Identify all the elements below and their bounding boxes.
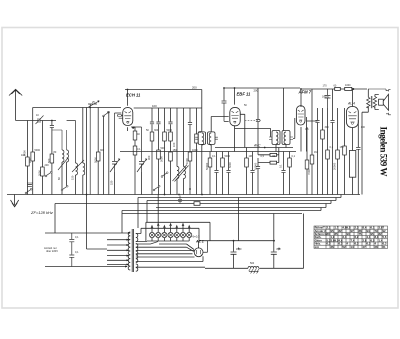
wire: [26, 166, 28, 195]
inductor L2 antenna coil: [67, 150, 69, 162]
svg-text:6,2: 6,2: [355, 235, 359, 239]
resistor R29: [305, 160, 309, 169]
inductor L6 osc coil: [184, 167, 186, 179]
wire input top bus: [33, 108, 121, 121]
svg-text:0,1: 0,1: [279, 164, 283, 168]
capacitor C3 padding: [28, 185, 32, 187]
svg-text:6,3: 6,3: [367, 242, 371, 246]
wire: [134, 127, 142, 195]
wire: [151, 124, 153, 132]
wire long vertical screen: [201, 90, 203, 195]
resistor R27 cathode (tall): [349, 151, 355, 178]
wire vertical x27: [26, 121, 28, 158]
wire tube V1 plate to bus: [127, 90, 129, 106]
switch S7 osc: [161, 172, 168, 178]
wire speaker feed: [362, 89, 368, 195]
resistor R25: [326, 150, 330, 159]
resistor R8: [150, 132, 154, 141]
wire vertical x32: [32, 108, 34, 153]
svg-text:5000: 5000: [94, 157, 98, 163]
resistor R4: [50, 154, 54, 163]
svg-text:500: 500: [250, 262, 255, 265]
svg-text:0,1: 0,1: [75, 251, 79, 254]
wire: [224, 103, 229, 121]
resistor R20: [288, 158, 292, 167]
bus return 3: [55, 203, 331, 205]
capacitor C10: [222, 101, 227, 103]
wire x177: [176, 108, 178, 167]
resistor R14: [195, 134, 199, 143]
wire: [222, 167, 224, 195]
mains input top: [45, 232, 130, 234]
bus return 2: [147, 200, 336, 202]
bus return mid: [120, 151, 296, 153]
wire bottom return: [205, 267, 304, 269]
svg-text:2000: 2000: [38, 170, 42, 176]
svg-text:300: 300: [154, 129, 159, 132]
wire x190: [189, 108, 191, 122]
resistor R13: [188, 152, 192, 161]
tube V2 EBF11: [230, 107, 240, 125]
svg-text:1000: 1000: [185, 158, 189, 164]
resistor R28 on bus: [194, 202, 200, 206]
wire x183: [183, 108, 185, 167]
svg-text:61: 61: [383, 245, 387, 249]
resistor R19 horizontal: [270, 153, 277, 156]
staircase joins: [321, 195, 341, 211]
ground main bus: [7, 194, 360, 196]
wire B+ feed: [87, 248, 108, 250]
svg-text:150: 150: [340, 146, 345, 149]
bus top right: [300, 88, 367, 90]
resistor R23: [310, 155, 314, 164]
svg-text:10000: 10000: [254, 162, 258, 170]
plus mark C25: [278, 247, 280, 249]
lamp LA1: [149, 232, 154, 237]
junction blob AVC: [264, 147, 266, 149]
wire x283: [283, 152, 285, 171]
wire: [82, 175, 84, 195]
wire vertical x52: [51, 121, 53, 126]
resistor R10: [163, 132, 167, 141]
svg-text:100: 100: [21, 154, 26, 157]
svg-text:100: 100: [152, 104, 157, 108]
wire: [357, 149, 359, 194]
capacitor C22 mains: [69, 233, 74, 255]
tube V1 ECH11: [123, 108, 133, 126]
svg-text:1000: 1000: [192, 149, 198, 152]
resistor R21 on bus: [335, 87, 341, 90]
bus return 4: [156, 207, 326, 209]
capacitor C17: [281, 171, 285, 173]
wire vertical x98: [97, 108, 99, 153]
svg-text:100: 100: [28, 158, 32, 163]
resistor R3: [41, 167, 45, 176]
IF transformer IFT1: [198, 132, 206, 145]
wire IFT2 to AF7 grid: [293, 118, 295, 139]
wire: [252, 173, 254, 195]
wire: [170, 124, 172, 132]
svg-text:1000: 1000: [345, 84, 351, 87]
wire vertical x75: [67, 121, 76, 164]
table cell data marks: [327, 226, 387, 249]
wire tube V1 bottom: [127, 127, 129, 131]
wire: [327, 159, 329, 195]
tuning capacitor VC3: [137, 127, 147, 172]
svg-text:36: 36: [331, 245, 335, 249]
wire: [277, 148, 279, 163]
wire x322: [322, 108, 324, 130]
capacitor C1 antenna trimmer: [37, 118, 45, 122]
wire: [97, 161, 99, 195]
wire: [189, 125, 191, 152]
wire grid cap branch: [223, 88, 225, 101]
capacitor C8 IFT1: [195, 137, 198, 139]
wire IFT1: [210, 145, 212, 152]
resistor R9: [157, 150, 161, 159]
wire x210: [209, 152, 211, 159]
resistor R11: [169, 132, 173, 141]
svg-text:47: 47: [363, 245, 367, 249]
inductor L1 antenna coil: [62, 150, 64, 162]
wire antenna to input: [16, 120, 37, 122]
capacitor C5: [156, 122, 160, 124]
transformer T2 core: [370, 96, 373, 108]
wire: [257, 169, 259, 195]
wire band drop: [157, 195, 159, 225]
svg-text:52: 52: [343, 245, 347, 249]
capacitor C6: [168, 122, 172, 124]
svg-text:0,5: 0,5: [261, 155, 265, 158]
svg-text:150: 150: [173, 149, 178, 152]
hum coil L8 on return: [248, 267, 259, 269]
svg-text:ECH 11: ECH 11: [126, 93, 141, 98]
svg-text:200: 200: [254, 89, 259, 93]
wire: [27, 182, 32, 184]
svg-text:8µF: 8µF: [277, 248, 282, 251]
svg-text:AZ 1: AZ 1: [195, 240, 204, 244]
bus grid/heater mid: [134, 107, 202, 109]
wire x337: [337, 108, 339, 150]
wire tube V2 top: [234, 88, 236, 105]
table row labels: [315, 226, 327, 249]
svg-text:0,1: 0,1: [212, 155, 216, 158]
wire lamp bottoms: [147, 238, 189, 241]
wire vertical x82: [82, 108, 84, 164]
wire x327: [327, 108, 329, 150]
svg-text:1M: 1M: [249, 155, 252, 158]
svg-text:200: 200: [192, 86, 197, 90]
bus return 5: [122, 210, 321, 212]
svg-text:AFM 7: AFM 7: [298, 90, 312, 95]
bus B+ rectified: [199, 214, 304, 269]
wire rectifier output: [203, 241, 208, 253]
capacitor C19: [315, 121, 319, 123]
tuning capacitor VC2: [110, 113, 120, 172]
wire: [158, 124, 160, 150]
capacitor C13: [214, 171, 218, 173]
resistor R16: [221, 158, 225, 167]
wire x246: [246, 148, 248, 159]
wire: [51, 163, 53, 195]
junction dots: [189, 188, 191, 190]
svg-text:Ingelen 539 W: Ingelen 539 W: [379, 127, 389, 177]
svg-text:16µF: 16µF: [236, 248, 242, 251]
wire IFT1 secondary to grid: [211, 117, 229, 132]
svg-text:1M: 1M: [314, 151, 317, 154]
wire: [183, 179, 185, 195]
wire: [289, 167, 291, 195]
inductor L3 band coil: [76, 163, 78, 175]
svg-text:85: 85: [335, 232, 339, 236]
value table: [314, 226, 388, 248]
svg-text:6,3: 6,3: [355, 242, 359, 246]
wire: [134, 155, 136, 195]
wire: [51, 128, 53, 154]
lamp LA7: [187, 232, 192, 237]
svg-text:EBF 11: EBF 11: [237, 92, 252, 97]
wire: [115, 113, 122, 195]
resistor R7: [133, 146, 137, 155]
switch S3 wave band: [61, 185, 68, 191]
chassis ground hatch: [249, 269, 260, 274]
svg-text:5000: 5000: [225, 155, 231, 158]
wire: [322, 139, 324, 195]
wire vertical x103: [103, 116, 105, 195]
capacitor C23 mains: [69, 255, 74, 267]
wire secondary to voice coil: [375, 95, 379, 110]
capacitor C15: [250, 171, 254, 173]
wire: [209, 167, 211, 195]
capacitor C24 filter: [231, 241, 237, 269]
capacitor C25 filter: [271, 214, 277, 269]
resistor R2: [31, 152, 35, 161]
loudspeaker: [379, 99, 384, 105]
svg-text:50000: 50000: [205, 162, 209, 170]
heater wires: [136, 242, 205, 268]
wire x152: [151, 108, 153, 122]
svg-text:500: 500: [161, 147, 166, 150]
svg-text:28: 28: [375, 245, 379, 249]
voltage selector taps: [107, 240, 129, 265]
power transformer T1 primary: [128, 232, 130, 270]
svg-text:75: 75: [359, 232, 363, 236]
wire x164: [164, 108, 166, 132]
wire: [332, 123, 334, 195]
wire: [246, 167, 248, 195]
wire tube V4: [353, 89, 359, 151]
lamp LA5: [174, 232, 179, 237]
wire x170: [170, 108, 172, 122]
capacitor C11 IFT2: [269, 137, 272, 140]
svg-text:300: 300: [100, 149, 105, 152]
wire tube V2 bottom: [234, 125, 236, 151]
resistor R26: [336, 150, 340, 159]
wire x317: [317, 108, 319, 120]
svg-text:6×0,3: 6×0,3: [193, 235, 201, 239]
svg-text:ZF=128 kHz: ZF=128 kHz: [30, 210, 53, 215]
wire speaker frame: [368, 89, 386, 91]
component value labels (tiny): [21, 84, 365, 265]
lamp LA4: [168, 232, 173, 237]
dashed AVC link: [245, 120, 262, 122]
wire x222: [222, 152, 224, 159]
resistor R5: [96, 152, 100, 161]
svg-text:über 220V: über 220V: [46, 249, 58, 253]
capacitor C16: [256, 167, 260, 169]
bus B+ top ECH: [125, 89, 202, 91]
capacitor C26: [256, 120, 260, 122]
wire: [75, 175, 77, 195]
svg-text:300: 300: [325, 126, 330, 129]
mains input bottom: [45, 266, 127, 268]
svg-text:150: 150: [71, 175, 75, 180]
wire x252: [252, 152, 254, 171]
resistor R24: [321, 130, 325, 139]
resistor R17: [245, 158, 249, 167]
junction blob bus: [352, 88, 354, 90]
wire x158: [158, 108, 160, 122]
wire: [41, 176, 43, 195]
wire: [189, 161, 191, 195]
svg-text:14: 14: [351, 245, 355, 249]
svg-text:5000: 5000: [167, 129, 173, 132]
resistor R1: [26, 157, 30, 166]
lamp LA2: [156, 232, 161, 237]
wire: [196, 143, 198, 195]
wire: [283, 173, 285, 195]
wire x289: [289, 152, 291, 159]
wire grid coupling x258: [257, 88, 259, 119]
wire HT secondary to rectifier: [136, 228, 199, 240]
switch S1 wave band: [25, 188, 32, 194]
wire: [62, 162, 67, 195]
svg-text:300: 300: [147, 155, 151, 160]
svg-text:100: 100: [172, 142, 176, 147]
svg-text:2,4: 2,4: [343, 235, 347, 239]
power transformer T1 secondary: [136, 234, 138, 242]
wire x307: [306, 127, 308, 160]
lamp LA6: [180, 232, 185, 237]
wire: [257, 122, 259, 148]
wire x332: [332, 89, 334, 120]
wire: [131, 127, 135, 146]
wire left drops: [55, 108, 147, 250]
wire x216: [216, 152, 218, 171]
bus B+ EBF: [224, 87, 300, 89]
wire lamp shelf: [146, 222, 210, 241]
svg-text:5000: 5000: [160, 156, 164, 162]
trimmer arrow L1: [58, 158, 68, 170]
svg-text:170: 170: [323, 84, 328, 87]
wire: [306, 169, 308, 195]
wire B+ riser: [238, 198, 240, 241]
bus return 6: [122, 213, 302, 215]
capacitor C7: [188, 123, 192, 125]
IF transformer IFT2: [272, 131, 280, 145]
svg-text:5000: 5000: [228, 162, 232, 168]
capacitor C4: [150, 122, 154, 124]
wire x196: [196, 108, 198, 134]
svg-text:mA: mA: [315, 245, 319, 249]
wire: [170, 141, 172, 152]
bus AVC: [215, 147, 293, 149]
svg-text:0,1: 0,1: [292, 155, 296, 158]
wire: [216, 173, 218, 195]
svg-text:97: 97: [351, 229, 355, 233]
svg-text:100: 100: [361, 126, 366, 129]
svg-text:200: 200: [45, 164, 50, 167]
svg-text:7000: 7000: [307, 169, 311, 175]
inductor L5 osc coil: [177, 167, 179, 179]
svg-text:520: 520: [110, 180, 114, 185]
svg-text:5000: 5000: [35, 149, 41, 152]
trimmer arrow L3: [72, 160, 84, 172]
svg-text:0,5: 0,5: [305, 128, 309, 131]
wire: [311, 164, 313, 195]
capacitor C14: [226, 171, 230, 173]
ground arrow: [11, 195, 19, 207]
output transformer T2 secondary zigzag: [373, 97, 376, 108]
switch S6 mains: [151, 242, 159, 244]
capacitor C27: [356, 147, 360, 149]
svg-text:92: 92: [383, 229, 387, 233]
capacitor C21: [178, 196, 182, 204]
svg-text:5,6: 5,6: [383, 235, 387, 239]
resistor R19b horizontal: [270, 161, 277, 164]
capacitor C18 electrolytic: [325, 89, 331, 108]
component value labels rotated (tiny): [23, 142, 337, 185]
switch S5: [153, 185, 160, 191]
capacitor C9 IFT1: [215, 137, 218, 139]
svg-text:AVC: AVC: [253, 144, 261, 148]
svg-text:82: 82: [339, 229, 343, 233]
wire IFT2 top: [276, 88, 286, 152]
tube V5 AZ1 rectifier: [194, 248, 203, 257]
wire: [228, 173, 230, 195]
wire: [344, 108, 346, 195]
wire coil feed: [52, 130, 67, 150]
resistor R22 on bus: [345, 87, 352, 90]
svg-text:500: 500: [47, 158, 51, 163]
wire: [352, 177, 354, 194]
wire: [164, 141, 166, 195]
antenna: [9, 89, 22, 120]
wire tube V3 grid: [301, 117, 318, 152]
wire: [32, 161, 34, 195]
svg-text:90: 90: [347, 232, 351, 236]
wire AVC branch: [258, 148, 270, 167]
wire tube V3 top: [300, 89, 302, 107]
resistor R6 cathode: [133, 131, 137, 140]
bus return 1: [138, 197, 341, 199]
resistor R12: [169, 152, 173, 161]
wire: [337, 159, 339, 195]
wire x228: [228, 152, 230, 171]
wire: [176, 179, 178, 195]
svg-text:20000: 20000: [333, 162, 337, 170]
svg-text:16000: 16000: [322, 96, 330, 99]
trimmer arrow L6: [173, 165, 189, 182]
switch S2 wave band: [45, 171, 52, 177]
wire x312: [311, 89, 313, 155]
wire plate to IFT2: [235, 128, 271, 137]
wire vertical x42: [41, 121, 43, 168]
resistor R15: [208, 158, 212, 167]
variable capacitor VC1: [88, 101, 99, 195]
output transformer T2 primary zigzag: [367, 97, 370, 108]
lamp LA3: [162, 232, 167, 237]
